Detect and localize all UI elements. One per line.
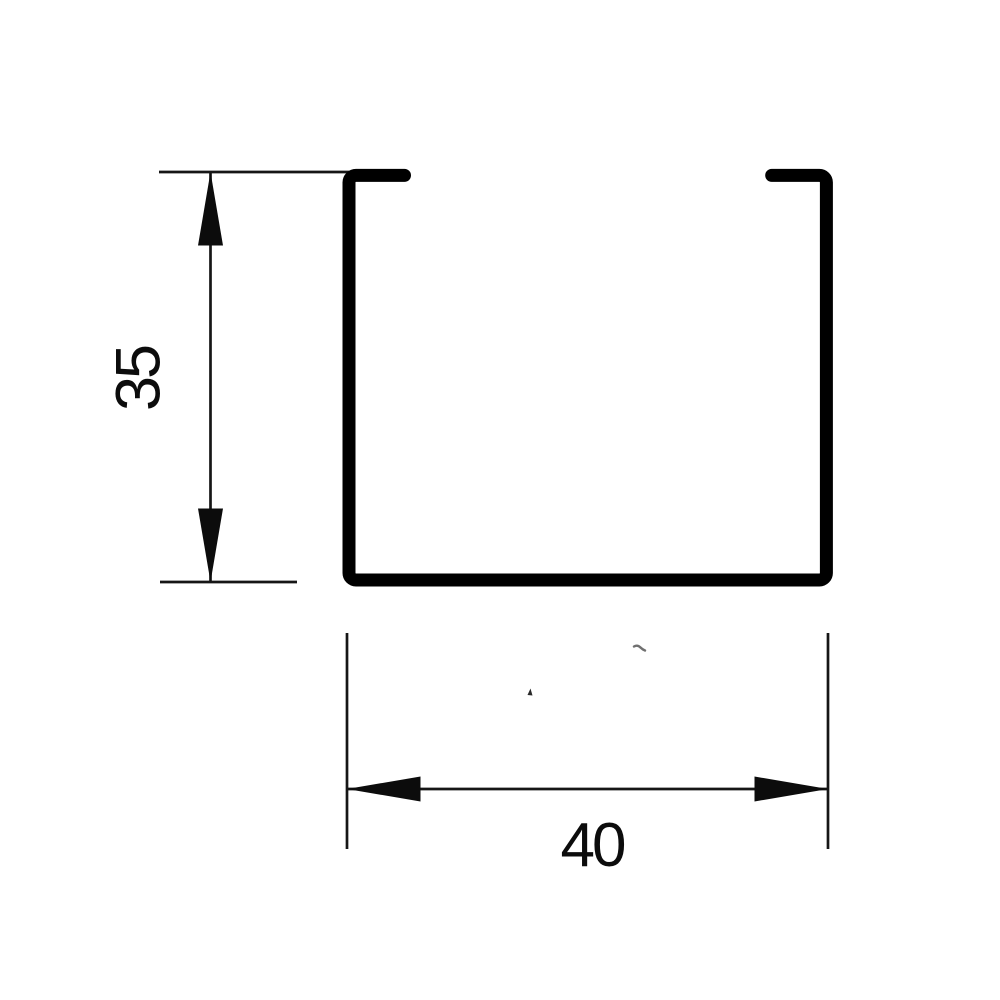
arrowhead left of 40 dimension <box>347 777 421 802</box>
speck artifact (small dot) <box>528 689 533 696</box>
svg-text:40: 40 <box>561 811 625 880</box>
svg-text:35: 35 <box>104 346 174 411</box>
extension line left (for 40) <box>346 633 349 849</box>
arrowhead bottom of 35 dimension <box>198 509 223 583</box>
speck artifact (faint diagonal tick) <box>634 646 645 651</box>
arrowhead top of 35 dimension <box>198 172 223 246</box>
arrowhead right of 40 dimension <box>755 777 829 802</box>
dimension line 40 (horizontal) <box>347 788 828 791</box>
extension line top (for 35) <box>159 171 350 174</box>
extension line bottom (for 35) <box>160 581 297 584</box>
C-channel profile outline (left lip, left web, bottom flange, right web, right lip) <box>349 175 826 580</box>
extension line right (for 40) <box>827 633 830 849</box>
dimension line 35 (vertical) <box>209 172 212 582</box>
